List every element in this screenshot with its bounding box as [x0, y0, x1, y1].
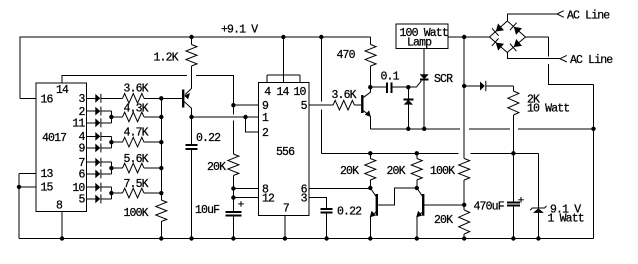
junction pin2 branch — [243, 115, 247, 119]
wire pin14 net continued after crossing — [196, 75, 233, 105]
wire to 556 pin12 — [233, 197, 258, 199]
svg-text:11: 11 — [72, 118, 85, 131]
wire AC line top — [507, 14, 557, 21]
junction rail-wireB — [319, 35, 323, 39]
arrow AC top — [557, 11, 564, 18]
wire to 556 pin8 — [233, 187, 258, 189]
svg-text:4.7K: 4.7K — [124, 126, 149, 139]
wire 556 pin3 out — [309, 198, 327, 209]
resistor 5.6K — [123, 163, 162, 173]
ground rail bottom — [19, 238, 594, 240]
junction rail-556 — [281, 35, 285, 39]
svg-text:8: 8 — [56, 200, 63, 213]
wire pin15 to ground — [19, 186, 36, 188]
capacitor 0.22 first — [186, 117, 198, 239]
svg-text:14: 14 — [56, 84, 69, 97]
junction pin15 ground — [17, 185, 21, 189]
junction flipflop right collector — [415, 186, 419, 190]
junction rail-1.2K — [189, 35, 193, 39]
svg-text:14: 14 — [277, 86, 290, 99]
bridge diode lower-left — [492, 38, 504, 51]
junction pin7 ground — [283, 236, 287, 240]
diode D1 pin3 — [87, 94, 123, 103]
svg-text:0.22: 0.22 — [196, 132, 221, 145]
junction clocknet pin9 — [231, 103, 235, 107]
svg-text:3.6K: 3.6K — [332, 89, 357, 102]
capacitor 0.22 second — [321, 209, 333, 238]
junction diode wireA — [406, 127, 410, 131]
wire pin16 to rail — [20, 97, 36, 99]
wire summing node vertical — [160, 98, 162, 200]
diode D5 pin9 — [87, 143, 112, 152]
resistor 4.7K — [123, 137, 162, 147]
svg-text:556: 556 — [276, 146, 295, 159]
bridge rectifier diamond — [490, 21, 526, 53]
svg-text:100K: 100K — [430, 165, 455, 178]
junction SCR wireA — [422, 127, 426, 131]
svg-text:1: 1 — [262, 112, 269, 125]
diode D8 pin10 — [87, 183, 112, 192]
junction sum row4 — [159, 166, 163, 170]
resistor 3.6K row1 — [123, 94, 162, 104]
wire collector to 556 pin1 — [192, 116, 259, 118]
resistor 3.6K second — [333, 100, 362, 110]
svg-text:12: 12 — [262, 193, 275, 206]
junction zener ground — [536, 236, 540, 240]
wire 556 pin7 ground — [284, 216, 286, 239]
junction sum row5 — [159, 191, 163, 195]
SCR Q5 — [420, 49, 429, 129]
svg-text:4017: 4017 — [42, 132, 66, 145]
svg-text:3: 3 — [301, 193, 308, 206]
capacitor 10uF electrolytic — [226, 201, 244, 238]
bridge diode lower-right — [510, 39, 522, 52]
svg-text:20K: 20K — [387, 165, 406, 178]
svg-text:5: 5 — [79, 194, 86, 207]
junction sum row2 — [159, 115, 163, 119]
svg-text:0.22: 0.22 — [337, 206, 362, 219]
bridge diode upper-left — [492, 23, 504, 36]
junction sum row3 — [159, 140, 163, 144]
svg-text:0.1: 0.1 — [381, 71, 400, 84]
svg-text:10uF: 10uF — [195, 204, 220, 217]
diode D4 pin4 — [87, 132, 112, 141]
diode D11 charge — [464, 81, 513, 91]
junction 470uF ground — [511, 236, 515, 240]
wire bracket pins2-11 — [109, 111, 122, 123]
resistor 20K third — [411, 153, 422, 188]
junction divider node — [462, 203, 466, 207]
diode D7 pin6 — [87, 169, 112, 178]
svg-text:4: 4 — [264, 86, 271, 99]
wire +9.1V rail — [20, 37, 371, 98]
arrow AC bottom — [560, 55, 567, 62]
wire left ground drop — [18, 173, 20, 238]
svg-text:20K: 20K — [434, 214, 453, 227]
svg-text:470uF: 470uF — [474, 201, 505, 214]
resistor 7.5K — [123, 188, 162, 198]
resistor 20K first — [228, 105, 239, 212]
resistor 20K second — [365, 153, 376, 188]
wire pin13 to ground — [19, 172, 36, 174]
junction sum row1 — [159, 96, 163, 100]
svg-text:5.6K: 5.6K — [124, 153, 149, 166]
svg-text:2: 2 — [262, 127, 269, 140]
svg-text:3: 3 — [79, 93, 86, 106]
diode D10 snubber — [403, 87, 413, 129]
wire Q3 base cross-couple — [377, 188, 417, 205]
svg-text:16: 16 — [41, 93, 54, 106]
transistor Q4 NPN right — [416, 188, 423, 239]
wire bridge negative return — [526, 37, 594, 239]
junction 470 collector — [368, 85, 372, 89]
svg-text:3.6K: 3.6K — [124, 83, 149, 96]
wire Q1 base — [161, 97, 183, 99]
wire A cathode net — [370, 128, 593, 130]
svg-text:20K: 20K — [340, 165, 359, 178]
junction 20K pin12 — [231, 195, 235, 199]
wire bracket pins4-9 — [109, 136, 122, 148]
junction lamp node — [462, 35, 466, 39]
svg-text:470: 470 — [337, 49, 356, 62]
junction flipflop left collector — [368, 186, 372, 190]
IC U1 4017 — [36, 83, 87, 212]
svg-text:SCR: SCR — [434, 73, 453, 86]
wire pin14 to 556 clock net — [62, 75, 187, 83]
svg-text:9: 9 — [79, 143, 86, 156]
svg-text:10: 10 — [294, 86, 307, 99]
svg-text:AC Line: AC Line — [567, 10, 610, 23]
U2 power stubs — [267, 37, 300, 83]
junction 0.22 second ground — [324, 236, 328, 240]
junction lamp node diode — [462, 84, 466, 88]
diode D6 pin7 — [87, 158, 112, 167]
junction pin8 ground — [60, 236, 64, 240]
wire 556 pin5 out — [309, 104, 333, 106]
wire branch to 556 pin2 — [246, 117, 259, 132]
resistor 470 — [365, 37, 376, 87]
wire 556 pin6 to flipflop — [309, 187, 371, 189]
svg-text:1.2K: 1.2K — [154, 52, 179, 65]
wire lamp to bridge — [448, 36, 490, 38]
transistor Q3 NPN left — [370, 188, 377, 239]
junction Q1 collector node — [189, 115, 193, 119]
svg-text:AC Line: AC Line — [570, 54, 613, 67]
IC U2 556 — [259, 83, 309, 216]
junction gate node — [406, 85, 410, 89]
svg-text:10 Watt: 10 Watt — [527, 103, 569, 116]
svg-text:15: 15 — [41, 182, 54, 195]
svg-text:+9.1 V: +9.1 V — [221, 24, 258, 37]
resistor 20K fourth — [459, 210, 470, 239]
junction 10uF ground — [231, 236, 235, 240]
wire pin8 to ground — [61, 212, 63, 239]
junction 100K ground — [159, 236, 163, 240]
capacitor 0.1 — [370, 82, 408, 92]
resistor 100K left — [156, 200, 167, 239]
wire Q4 base to divider — [423, 204, 464, 206]
svg-text:1 Watt: 1 Watt — [548, 213, 584, 226]
svg-text:7.5K: 7.5K — [124, 178, 149, 191]
wire bracket pins10-5 — [109, 187, 122, 199]
bridge diode upper-right — [510, 23, 522, 36]
svg-text:Lamp: Lamp — [407, 36, 432, 49]
resistor 1.2K — [186, 37, 197, 89]
capacitor 470uF electrolytic — [507, 153, 524, 238]
wire bracket pins7-6 — [109, 162, 122, 174]
diode D9 pin5 — [87, 194, 112, 203]
junction wireB 20K right — [415, 151, 419, 155]
wire lamp node drop — [463, 37, 465, 159]
resistor 4.3K — [123, 112, 162, 122]
wire B timing net — [321, 152, 538, 154]
wire rail to flipflop net — [320, 37, 322, 153]
wire to 556 pin9 — [233, 104, 258, 106]
resistor 100K right — [459, 159, 470, 211]
svg-text:20K: 20K — [207, 161, 226, 174]
svg-text:13: 13 — [41, 168, 54, 181]
junction 0.22 ground — [189, 236, 193, 240]
svg-text:4.3K: 4.3K — [124, 103, 149, 116]
zener D12 9.1V — [530, 153, 546, 238]
junction 20K fourth ground — [462, 236, 466, 240]
junction wireB 470uF — [511, 151, 515, 155]
transistor Q1 PNP — [183, 89, 191, 118]
lamp 100 Watt box — [396, 24, 448, 49]
junction wireB 20K left — [368, 151, 372, 155]
resistor 2K 10 Watt — [508, 86, 519, 153]
junction Q4 emitter ground — [415, 236, 419, 240]
diode D2 pin2 — [87, 107, 112, 116]
junction wireA right — [591, 127, 595, 131]
diode D3 pin11 — [87, 118, 112, 127]
junction Q3 emitter ground — [368, 236, 372, 240]
wire SCR gate — [408, 81, 421, 88]
transistor Q2 NPN — [362, 87, 371, 129]
svg-text:100K: 100K — [124, 207, 149, 220]
svg-text:6: 6 — [79, 169, 86, 182]
svg-text:5: 5 — [301, 100, 308, 113]
junction 20K pin8 — [231, 186, 235, 190]
wire AC line bottom — [507, 53, 560, 59]
svg-text:7: 7 — [283, 203, 289, 216]
